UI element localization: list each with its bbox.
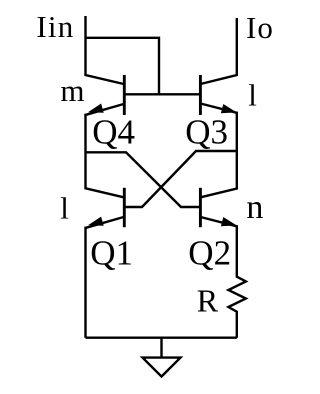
svg-text:Q4: Q4 (92, 112, 135, 151)
svg-text:l: l (248, 77, 257, 112)
svg-text:l: l (60, 191, 69, 226)
svg-text:Q2: Q2 (188, 233, 231, 272)
svg-text:Io: Io (246, 10, 274, 45)
svg-text:Q3: Q3 (185, 112, 228, 151)
svg-text:R: R (197, 282, 219, 318)
svg-text:Q1: Q1 (90, 233, 133, 272)
svg-text:m: m (60, 73, 84, 108)
svg-text:n: n (246, 189, 263, 226)
svg-text:Iin: Iin (36, 9, 74, 44)
